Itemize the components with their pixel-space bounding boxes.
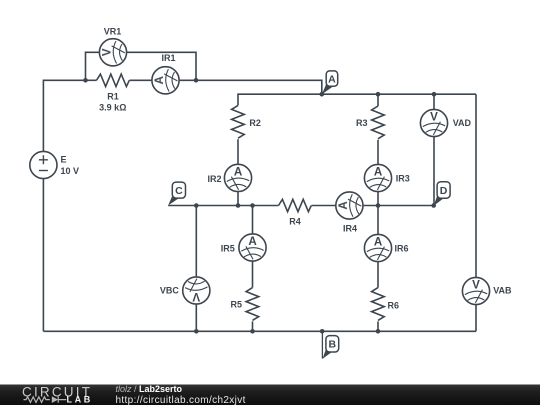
voltmeter VAB: [462, 277, 489, 304]
svg-text:IR3: IR3: [396, 173, 410, 183]
node junction IR5 top: [250, 203, 255, 208]
svg-text:R6: R6: [388, 301, 400, 311]
svg-text:A: A: [337, 201, 350, 210]
node junction IR2 bottom: [236, 203, 241, 208]
wire R2 to IR2: [237, 139, 239, 164]
node junction VAD top: [432, 92, 437, 97]
wire VAD to D node: [433, 137, 435, 206]
svg-text:A: A: [328, 73, 336, 85]
resistor R4: [279, 199, 312, 211]
svg-text:VAB: VAB: [493, 285, 512, 295]
svg-text:IR2: IR2: [207, 174, 221, 184]
wire R4 to IR4: [312, 205, 336, 207]
svg-text:VBC: VBC: [160, 285, 180, 295]
svg-text:R2: R2: [249, 118, 261, 128]
node B junction: [320, 329, 325, 334]
node flag A: [322, 71, 338, 95]
wire IR6 top lead: [377, 206, 379, 235]
wire IR5 to R5: [252, 261, 254, 288]
resistor R3: [372, 106, 385, 139]
svg-text:R5: R5: [230, 300, 242, 310]
ammeter IR4: [336, 192, 363, 219]
resistor R1: [97, 74, 130, 86]
svg-text:A: A: [374, 165, 383, 178]
svg-text:10 V: 10 V: [61, 166, 80, 176]
wire IR3 to junction: [377, 192, 379, 206]
node junction R6 bottom: [376, 329, 381, 334]
wire IR5 top lead: [252, 206, 254, 234]
wire R3 top lead: [377, 94, 379, 106]
ammeter IR3: [364, 164, 391, 191]
wire IR6 to R6: [377, 262, 379, 288]
svg-text:VR1: VR1: [104, 27, 122, 37]
svg-text:A: A: [234, 165, 243, 178]
svg-text:R3: R3: [356, 118, 368, 128]
node junction R3 top: [376, 92, 381, 97]
svg-text:IR4: IR4: [343, 223, 357, 233]
svg-text:3.9 kΩ: 3.9 kΩ: [99, 103, 126, 113]
node D junction: [431, 203, 436, 208]
wire VBC bottom lead: [195, 304, 197, 331]
resistor R5: [246, 288, 259, 321]
node junction IR1 right: [194, 78, 199, 83]
wire R6 bottom lead: [377, 321, 379, 331]
svg-text:IR5: IR5: [221, 244, 235, 254]
wire VBC top lead: [195, 206, 197, 277]
footer bar: [0, 385, 540, 405]
wire IR2 to C row: [237, 192, 239, 206]
wire bottom bus: [43, 330, 476, 332]
ammeter IR6: [364, 234, 391, 261]
svg-text:C: C: [175, 185, 183, 197]
wire right rail upper: [475, 94, 477, 277]
wire VAD top lead: [433, 94, 435, 109]
wire VR1 branch left: [86, 52, 100, 80]
resistor R2: [232, 105, 245, 138]
node flag D: [434, 182, 450, 206]
node A junction: [320, 92, 325, 97]
svg-text:A: A: [374, 235, 383, 248]
svg-text:B: B: [329, 339, 337, 351]
wire IR4 to D node: [363, 205, 434, 207]
svg-text:tlolz / Lab2serto: tlolz / Lab2serto: [116, 384, 183, 394]
node flag B: [322, 331, 338, 359]
wire R1 left lead: [86, 79, 97, 81]
wire right rail lower: [475, 305, 477, 332]
resistor R6: [372, 288, 385, 321]
svg-text:E: E: [61, 154, 67, 164]
svg-text:A: A: [248, 235, 257, 248]
svg-text:IR6: IR6: [395, 243, 409, 253]
svg-text:R1: R1: [107, 91, 119, 101]
node junction VBC bottom: [194, 329, 199, 334]
footer logo resistor-diode symbol: [24, 396, 67, 402]
node junction R5 bottom: [250, 329, 255, 334]
node flag C: [168, 182, 185, 205]
wire IR1 to A corner: [179, 80, 322, 94]
svg-text:IR1: IR1: [161, 53, 175, 63]
wire R1 right lead to IR1: [130, 79, 152, 81]
wire left rail bottom: [42, 179, 44, 332]
node junction bridge center: [376, 203, 381, 208]
svg-text:VAD: VAD: [453, 118, 472, 128]
svg-text:V: V: [430, 110, 438, 123]
svg-text:LAB: LAB: [67, 394, 93, 404]
footer logo diode triangle: [52, 396, 58, 403]
svg-text:D: D: [440, 185, 448, 197]
wire VR1 branch right: [127, 52, 196, 80]
svg-text:A: A: [153, 75, 166, 84]
voltage source E: [30, 151, 57, 178]
node junction VBC top: [194, 203, 199, 208]
voltmeter VBC: [183, 277, 210, 304]
voltmeter VAD: [420, 109, 447, 136]
wire C row left: [168, 205, 278, 207]
wire left rail top: [43, 80, 85, 151]
ammeter IR2: [224, 164, 251, 191]
svg-text:V: V: [472, 278, 480, 291]
svg-text:V: V: [192, 290, 200, 303]
svg-text:V: V: [100, 48, 113, 56]
node junction R1 left: [83, 78, 88, 83]
wire A bus left to R2: [238, 94, 322, 105]
svg-text:R4: R4: [289, 217, 301, 227]
wire R3 to IR3: [377, 140, 379, 165]
svg-text:http://circuitlab.com/ch2xjvt: http://circuitlab.com/ch2xjvt: [116, 395, 246, 405]
ammeter IR5: [239, 234, 266, 261]
voltmeter VR1: [99, 39, 126, 66]
ammeter IR1: [152, 67, 179, 94]
wire A bus right: [322, 93, 476, 95]
wire R5 bottom lead: [252, 321, 254, 331]
